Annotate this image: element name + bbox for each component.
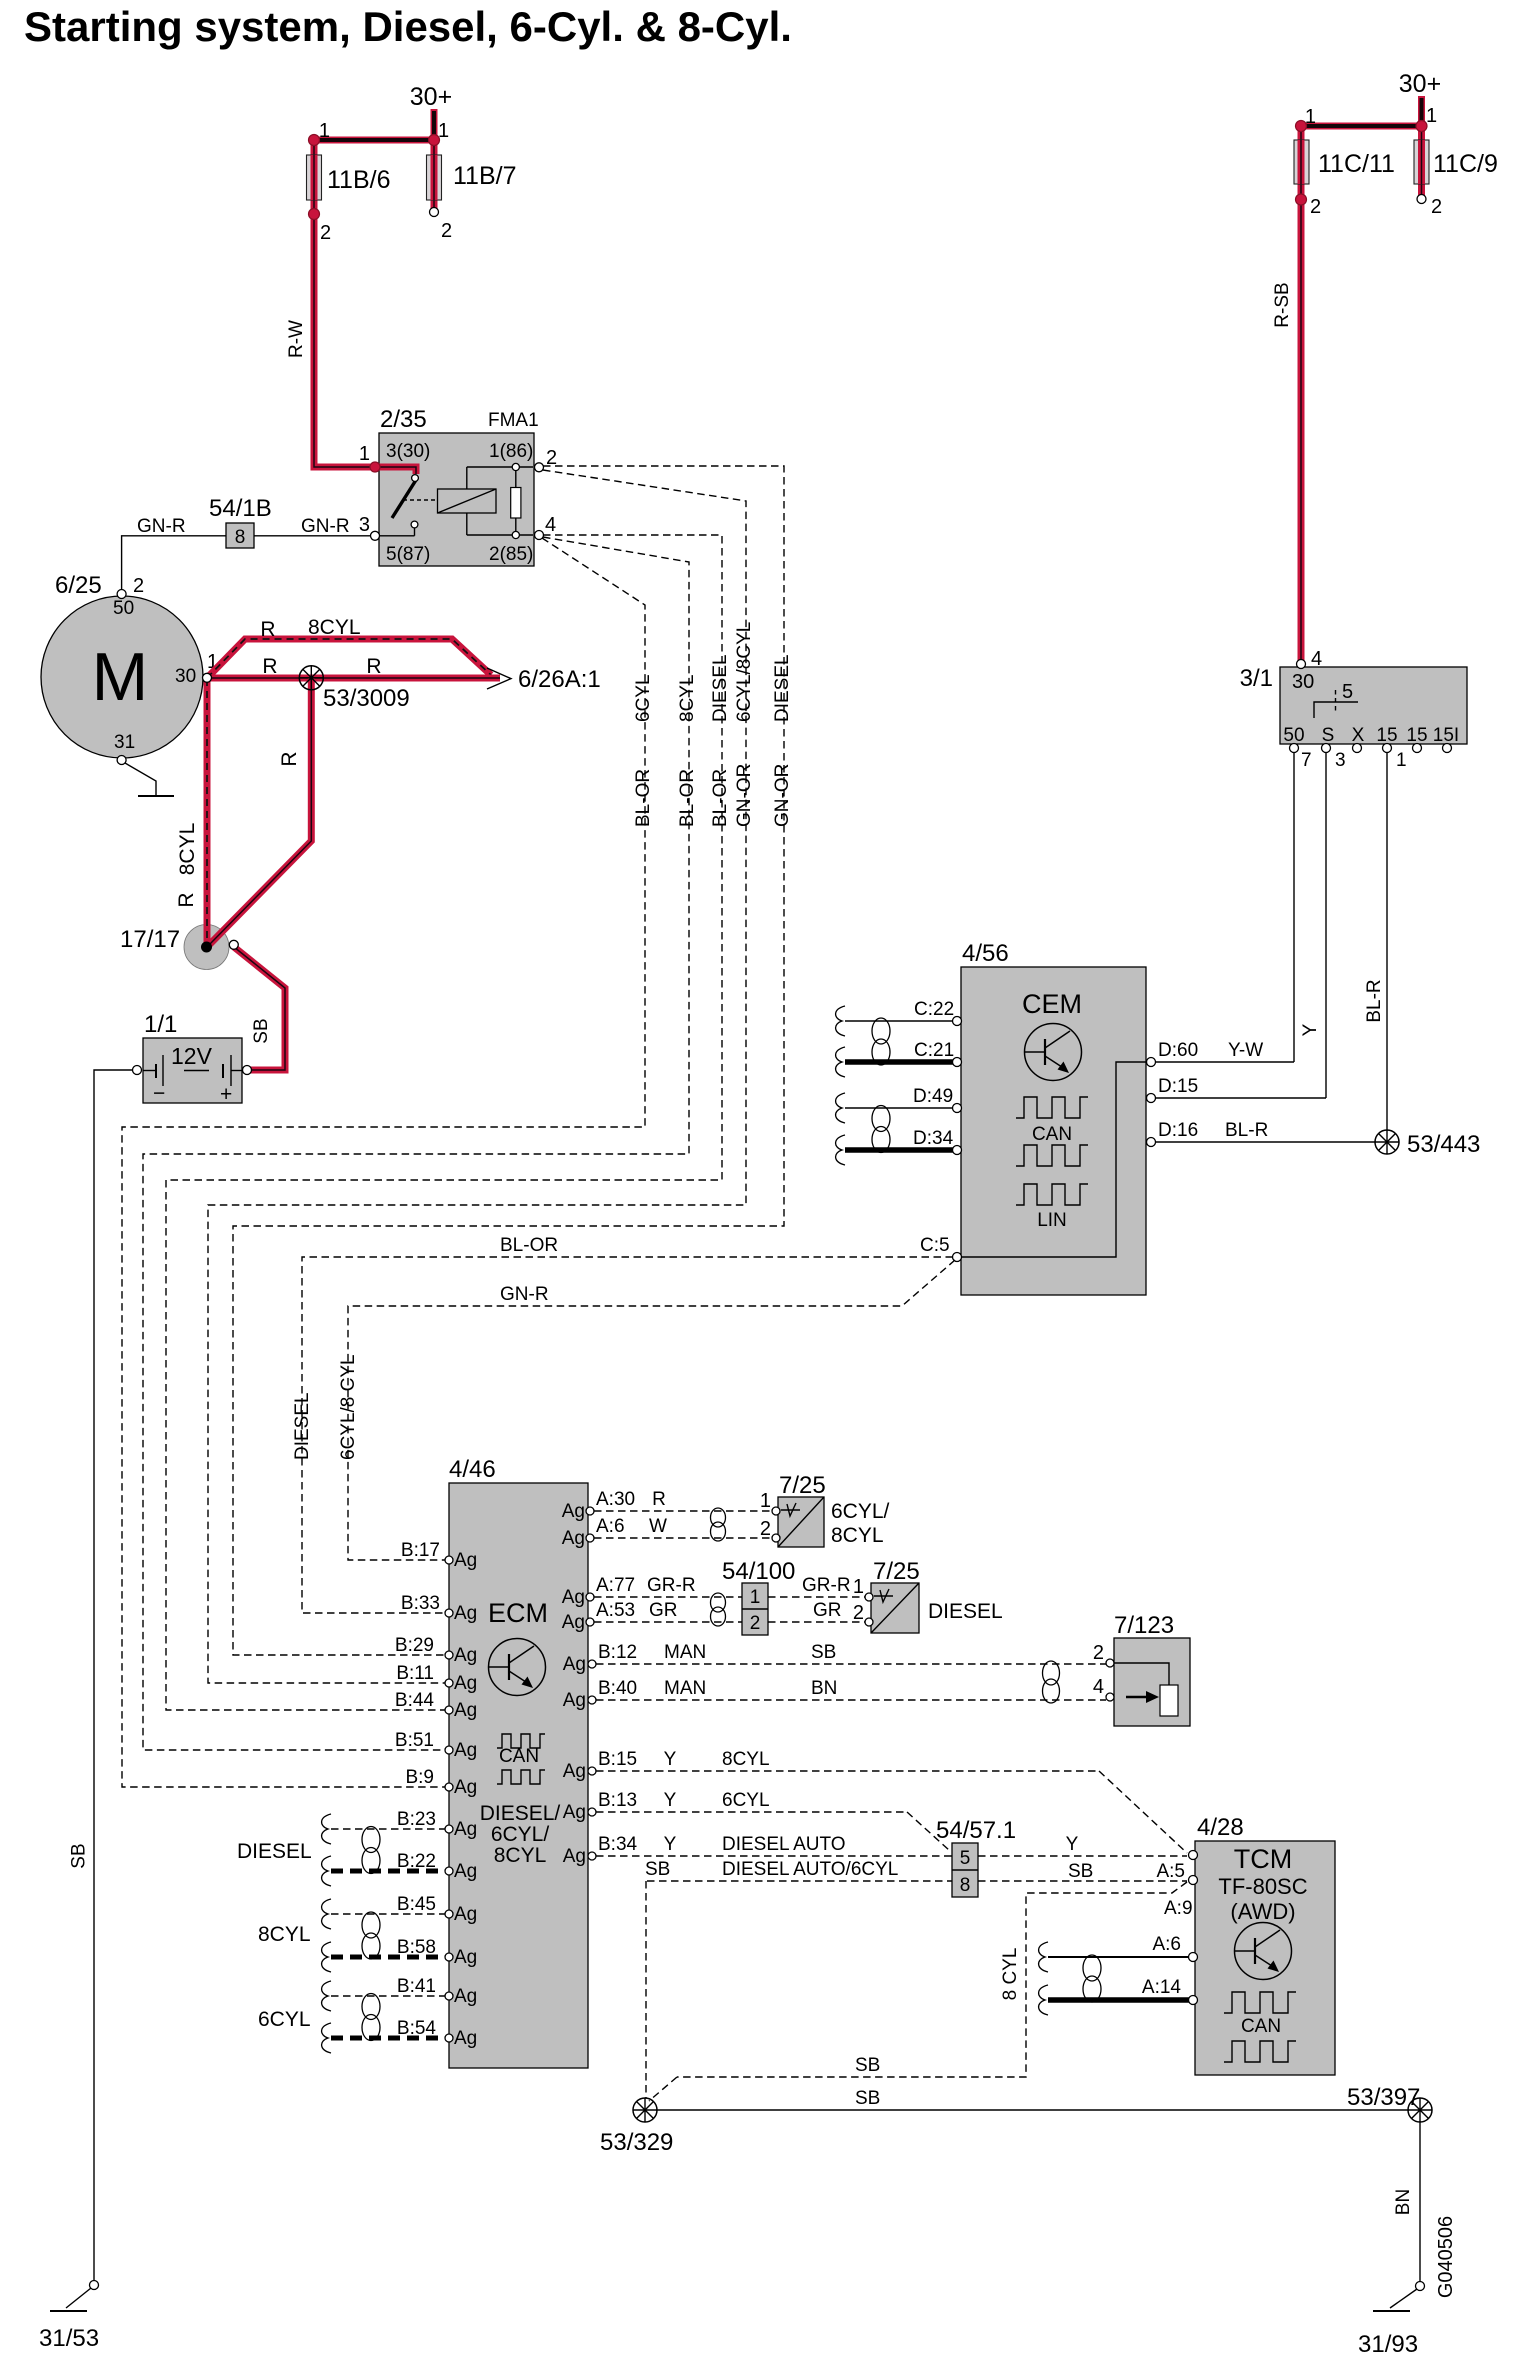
svg-text:8CYL: 8CYL <box>258 1923 311 1946</box>
svg-text:1: 1 <box>359 443 370 465</box>
svg-text:30: 30 <box>175 666 196 687</box>
svg-text:X: X <box>1352 725 1365 746</box>
svg-text:Y: Y <box>664 1834 677 1855</box>
svg-text:1: 1 <box>853 1576 864 1598</box>
svg-text:2: 2 <box>1431 196 1442 218</box>
svg-text:6CYL/8 CYL: 6CYL/8 CYL <box>338 1354 359 1460</box>
svg-text:53/3009: 53/3009 <box>323 685 410 712</box>
svg-text:A:14: A:14 <box>1142 1977 1182 1998</box>
svg-text:BL-R: BL-R <box>1364 979 1385 1022</box>
svg-text:GR-R: GR-R <box>802 1575 851 1596</box>
svg-text:B:9: B:9 <box>405 1767 434 1788</box>
svg-text:B:13: B:13 <box>598 1790 637 1811</box>
svg-text:SB: SB <box>855 2088 880 2109</box>
svg-text:CAN: CAN <box>1032 1124 1072 1145</box>
svg-text:Ag: Ag <box>454 1740 477 1761</box>
svg-text:5: 5 <box>960 1848 971 1869</box>
svg-text:SB: SB <box>69 1843 90 1868</box>
svg-text:DIESEL: DIESEL <box>292 1392 313 1460</box>
svg-text:A:77: A:77 <box>596 1575 635 1596</box>
svg-text:A:9: A:9 <box>1164 1898 1193 1919</box>
svg-text:Ag: Ag <box>563 1690 586 1711</box>
svg-text:8CYL: 8CYL <box>176 823 199 876</box>
svg-text:1/1: 1/1 <box>144 1011 177 1038</box>
svg-text:MAN: MAN <box>664 1642 706 1663</box>
svg-text:GN-R: GN-R <box>500 1284 549 1305</box>
svg-text:DIESEL AUTO/6CYL: DIESEL AUTO/6CYL <box>722 1859 898 1880</box>
svg-text:R: R <box>652 1489 666 1510</box>
svg-text:Ag: Ag <box>562 1528 585 1549</box>
svg-text:31/53: 31/53 <box>39 2325 99 2352</box>
svg-text:8: 8 <box>960 1875 971 1896</box>
svg-text:Ag: Ag <box>562 1612 585 1633</box>
svg-text:2: 2 <box>1093 1642 1104 1664</box>
svg-text:B:15: B:15 <box>598 1749 637 1770</box>
svg-text:15I: 15I <box>1433 725 1459 746</box>
svg-text:7/123: 7/123 <box>1114 1612 1174 1639</box>
svg-text:Ag: Ag <box>454 1645 477 1666</box>
svg-text:31/93: 31/93 <box>1358 2331 1418 2358</box>
svg-text:−: − <box>153 1082 165 1105</box>
svg-text:4: 4 <box>1311 648 1322 670</box>
svg-text:D:15: D:15 <box>1158 1076 1198 1097</box>
svg-text:54/1B: 54/1B <box>209 495 272 522</box>
svg-text:6/25: 6/25 <box>55 572 102 599</box>
svg-text:B:41: B:41 <box>397 1976 436 1997</box>
svg-text:BN: BN <box>811 1678 837 1699</box>
svg-text:R: R <box>175 892 198 907</box>
svg-text:3/1: 3/1 <box>1240 665 1273 692</box>
svg-text:2: 2 <box>760 1518 771 1540</box>
svg-text:SB: SB <box>855 2055 880 2076</box>
svg-text:2: 2 <box>750 1613 761 1634</box>
svg-text:CEM: CEM <box>1022 989 1082 1019</box>
svg-text:A:53: A:53 <box>596 1600 635 1621</box>
svg-text:BL-OR: BL-OR <box>500 1235 558 1256</box>
svg-text:Ag: Ag <box>454 2028 477 2049</box>
svg-text:D:60: D:60 <box>1158 1040 1198 1061</box>
svg-text:R: R <box>278 751 301 766</box>
svg-text:Y: Y <box>1300 1023 1321 1036</box>
svg-text:54/57.1: 54/57.1 <box>936 1817 1016 1844</box>
svg-text:B:12: B:12 <box>598 1642 637 1663</box>
svg-text:A:30: A:30 <box>596 1489 635 1510</box>
svg-text:SB: SB <box>645 1859 670 1880</box>
svg-text:Ag: Ag <box>454 1947 477 1968</box>
svg-text:1: 1 <box>750 1587 761 1608</box>
svg-text:7: 7 <box>1301 750 1312 771</box>
svg-text:A:5: A:5 <box>1156 1861 1185 1882</box>
svg-text:M: M <box>92 639 149 715</box>
svg-text:A:6: A:6 <box>596 1516 625 1537</box>
svg-text:30: 30 <box>1292 671 1314 693</box>
svg-text:B:29: B:29 <box>395 1635 434 1656</box>
svg-text:1: 1 <box>1426 105 1437 127</box>
svg-text:1: 1 <box>1305 106 1316 128</box>
svg-text:Ag: Ag <box>454 1603 477 1624</box>
svg-text:8CYL: 8CYL <box>677 674 698 722</box>
svg-text:DIESEL/: DIESEL/ <box>480 1802 561 1825</box>
svg-text:8CYL: 8CYL <box>494 1844 547 1867</box>
svg-text:7/25: 7/25 <box>873 1558 920 1585</box>
svg-text:3: 3 <box>359 514 370 536</box>
svg-text:2: 2 <box>1310 196 1321 218</box>
svg-text:11B/7: 11B/7 <box>453 162 516 190</box>
svg-text:Ag: Ag <box>563 1654 586 1675</box>
svg-text:SB: SB <box>251 1018 272 1043</box>
svg-text:2: 2 <box>133 575 144 597</box>
svg-text:12V: 12V <box>171 1043 213 1069</box>
svg-text:Ag: Ag <box>454 1904 477 1925</box>
svg-text:Y: Y <box>664 1790 677 1811</box>
svg-text:GN-OR: GN-OR <box>772 764 793 827</box>
svg-text:D:34: D:34 <box>913 1128 954 1149</box>
svg-text:Ag: Ag <box>454 1819 477 1840</box>
svg-text:6/26A:1: 6/26A:1 <box>518 666 601 693</box>
svg-text:5(87): 5(87) <box>386 544 430 565</box>
svg-text:SB: SB <box>811 1642 836 1663</box>
svg-text:R: R <box>262 655 277 678</box>
svg-text:LIN: LIN <box>1037 1210 1067 1231</box>
svg-text:Y: Y <box>664 1749 677 1770</box>
svg-text:B:23: B:23 <box>397 1809 436 1830</box>
svg-text:W: W <box>649 1516 667 1537</box>
svg-text:DIESEL: DIESEL <box>710 654 731 722</box>
svg-text:GR: GR <box>649 1600 678 1621</box>
svg-text:C:22: C:22 <box>914 999 954 1020</box>
svg-text:30+: 30+ <box>410 83 452 111</box>
svg-text:BL-OR: BL-OR <box>710 769 731 827</box>
svg-text:GN-R: GN-R <box>137 516 186 537</box>
svg-text:ECM: ECM <box>488 1598 548 1628</box>
svg-text:GR-R: GR-R <box>647 1575 696 1596</box>
svg-text:15: 15 <box>1406 725 1427 746</box>
svg-text:TCM: TCM <box>1234 1844 1292 1874</box>
svg-text:5: 5 <box>1342 681 1353 703</box>
svg-text:BL-OR: BL-OR <box>633 769 654 827</box>
svg-text:11C/9: 11C/9 <box>1433 150 1498 178</box>
svg-text:B:40: B:40 <box>598 1678 637 1699</box>
svg-text:DIESEL: DIESEL <box>237 1840 312 1863</box>
svg-text:B:44: B:44 <box>395 1690 435 1711</box>
svg-text:BN: BN <box>1393 2189 1414 2215</box>
svg-text:Ag: Ag <box>454 1777 477 1798</box>
svg-text:MAN: MAN <box>664 1678 706 1699</box>
svg-text:Ag: Ag <box>454 1986 477 2007</box>
svg-text:11C/11: 11C/11 <box>1318 150 1395 178</box>
svg-text:6CYL: 6CYL <box>633 674 654 722</box>
svg-text:C:21: C:21 <box>914 1040 954 1061</box>
svg-text:(AWD): (AWD) <box>1230 1899 1295 1924</box>
svg-text:3(30): 3(30) <box>386 441 430 462</box>
svg-text:GN-R: GN-R <box>301 516 350 537</box>
svg-text:Ag: Ag <box>454 1861 477 1882</box>
svg-text:CAN: CAN <box>1241 2016 1281 2037</box>
svg-text:2(85): 2(85) <box>489 544 533 565</box>
svg-text:GN-OR: GN-OR <box>734 764 755 827</box>
svg-text:31: 31 <box>114 732 135 753</box>
svg-text:8 CYL: 8 CYL <box>1000 1948 1021 2001</box>
svg-text:4/28: 4/28 <box>1197 1814 1244 1841</box>
svg-text:B:34: B:34 <box>598 1834 638 1855</box>
svg-text:6CYL/: 6CYL/ <box>831 1500 890 1523</box>
svg-text:53/443: 53/443 <box>1407 1131 1480 1158</box>
svg-text:2: 2 <box>320 222 331 244</box>
svg-text:Y: Y <box>1066 1834 1079 1855</box>
svg-text:15: 15 <box>1376 725 1397 746</box>
svg-text:B:33: B:33 <box>401 1593 440 1614</box>
svg-text:50: 50 <box>1283 725 1304 746</box>
svg-text:B:11: B:11 <box>396 1663 434 1684</box>
svg-text:1(86): 1(86) <box>489 441 533 462</box>
svg-text:6CYL: 6CYL <box>258 2008 311 2031</box>
svg-text:4: 4 <box>1093 1676 1104 1698</box>
svg-text:D:16: D:16 <box>1158 1120 1198 1141</box>
svg-text:30+: 30+ <box>1399 70 1441 98</box>
svg-text:1: 1 <box>1396 750 1407 771</box>
svg-text:C:5: C:5 <box>920 1235 950 1256</box>
svg-text:Ag: Ag <box>563 1802 586 1823</box>
svg-text:3: 3 <box>1335 750 1346 771</box>
svg-text:17/17: 17/17 <box>120 926 180 953</box>
svg-text:2: 2 <box>853 1602 864 1624</box>
svg-text:54/100: 54/100 <box>722 1558 795 1585</box>
svg-text:DIESEL AUTO: DIESEL AUTO <box>722 1834 846 1855</box>
svg-text:+: + <box>220 1083 232 1106</box>
svg-text:Ag: Ag <box>454 1673 477 1694</box>
svg-text:1: 1 <box>760 1490 771 1512</box>
svg-text:DIESEL: DIESEL <box>772 654 793 722</box>
svg-text:BL-R: BL-R <box>1225 1120 1268 1141</box>
svg-text:GR: GR <box>813 1600 842 1621</box>
svg-text:6CYL/8CYL: 6CYL/8CYL <box>734 622 755 722</box>
svg-text:4: 4 <box>545 514 556 536</box>
svg-text:Ag: Ag <box>563 1846 586 1867</box>
svg-text:R: R <box>260 618 275 641</box>
svg-text:1: 1 <box>438 120 449 142</box>
svg-text:CAN: CAN <box>499 1746 539 1767</box>
svg-text:Y-W: Y-W <box>1228 1040 1263 1061</box>
svg-text:Ag: Ag <box>563 1761 586 1782</box>
svg-text:SB: SB <box>1068 1861 1093 1882</box>
svg-text:G040506: G040506 <box>1435 2216 1457 2298</box>
svg-text:53/329: 53/329 <box>600 2129 673 2156</box>
svg-text:8: 8 <box>235 527 246 548</box>
svg-text:TF-80SC: TF-80SC <box>1218 1874 1307 1899</box>
svg-text:BL-OR: BL-OR <box>677 769 698 827</box>
svg-text:B:17: B:17 <box>401 1540 440 1561</box>
svg-text:A:6: A:6 <box>1152 1934 1181 1955</box>
svg-text:D:49: D:49 <box>913 1086 953 1107</box>
svg-text:8CYL: 8CYL <box>722 1749 770 1770</box>
svg-text:S: S <box>1322 725 1335 746</box>
svg-text:R-SB: R-SB <box>1272 282 1293 327</box>
svg-text:1: 1 <box>319 120 330 142</box>
svg-text:DIESEL: DIESEL <box>928 1600 1003 1623</box>
svg-text:2: 2 <box>441 220 452 242</box>
svg-text:11B/6: 11B/6 <box>327 166 390 194</box>
svg-text:2/35: 2/35 <box>380 406 427 433</box>
svg-text:R-W: R-W <box>286 320 307 358</box>
svg-text:Ag: Ag <box>562 1587 585 1608</box>
svg-text:FMA1: FMA1 <box>488 410 539 431</box>
svg-text:R: R <box>366 655 381 678</box>
svg-text:Starting system, Diesel, 6-Cyl: Starting system, Diesel, 6-Cyl. & 8-Cyl. <box>24 3 792 50</box>
svg-text:8CYL: 8CYL <box>308 616 361 639</box>
svg-text:Ag: Ag <box>454 1700 477 1721</box>
svg-text:6CYL/: 6CYL/ <box>491 1823 550 1846</box>
svg-text:7/25: 7/25 <box>779 1472 826 1499</box>
svg-text:4/56: 4/56 <box>962 940 1009 967</box>
svg-text:6CYL: 6CYL <box>722 1790 770 1811</box>
svg-text:B:51: B:51 <box>395 1730 434 1751</box>
svg-text:8CYL: 8CYL <box>831 1524 884 1547</box>
svg-text:Ag: Ag <box>562 1501 585 1522</box>
svg-text:Ag: Ag <box>454 1550 477 1571</box>
svg-text:4/46: 4/46 <box>449 1456 496 1483</box>
svg-text:53/397: 53/397 <box>1347 2084 1420 2111</box>
svg-text:B:45: B:45 <box>397 1894 436 1915</box>
svg-text:50: 50 <box>113 598 134 619</box>
